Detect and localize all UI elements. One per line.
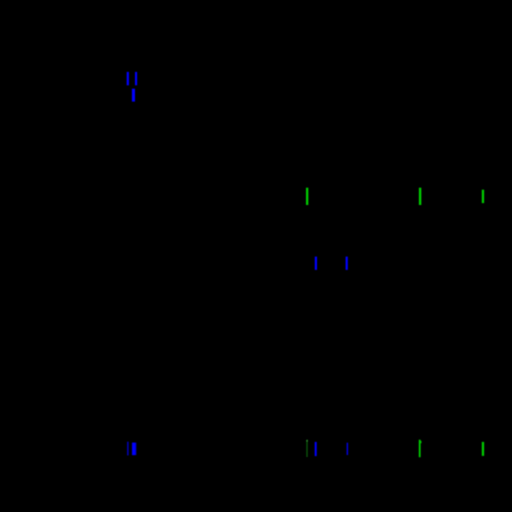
atom label N1-H (top-left amine), H left vertical stroke — [127, 72, 129, 85]
atom label N3 (central azo nitrogen, right), N vertical stroke — [346, 257, 348, 270]
atom label N1 (top-left amine), N vertical stroke — [132, 89, 135, 102]
atom label Cl6 (lower chlorine, right), l vertical stroke — [482, 442, 484, 456]
atom label N4-H (bottom-left amine), H vertical stroke (dim) — [127, 442, 129, 456]
atom label Cl4 (lower chlorine, faint), brighter top dot — [306, 440, 307, 442]
atom label Cl5 serif bump (top-right of l stroke) — [421, 441, 422, 443]
atom label N4 (bottom-left amine), N stroke bright core — [132, 443, 135, 456]
atom label N1-H (top-left amine), H right vertical stroke — [135, 72, 137, 85]
atom label Cl5 (lower chlorine, middle), l vertical stroke — [419, 440, 421, 458]
atom label Cl3 (upper chlorine, right), l vertical stroke — [482, 190, 484, 203]
atom label N2 (central azo nitrogen, left), N vertical stroke — [315, 257, 317, 270]
atom label Cl1 (upper chlorine, left), l vertical stroke — [306, 188, 308, 205]
atom label N4 (bottom-left amine), N double vertical stroke — [132, 443, 136, 456]
atom label Cl4 (lower chlorine, faint), l vertical stroke — [306, 440, 307, 457]
atom label N5 (bottom-middle nitrogen, left), N vertical stroke — [315, 442, 317, 456]
atom label N6 (bottom-middle nitrogen, right), N vertical stroke — [347, 443, 349, 455]
atom label Cl2 (upper chlorine, middle), l vertical stroke — [419, 188, 421, 205]
